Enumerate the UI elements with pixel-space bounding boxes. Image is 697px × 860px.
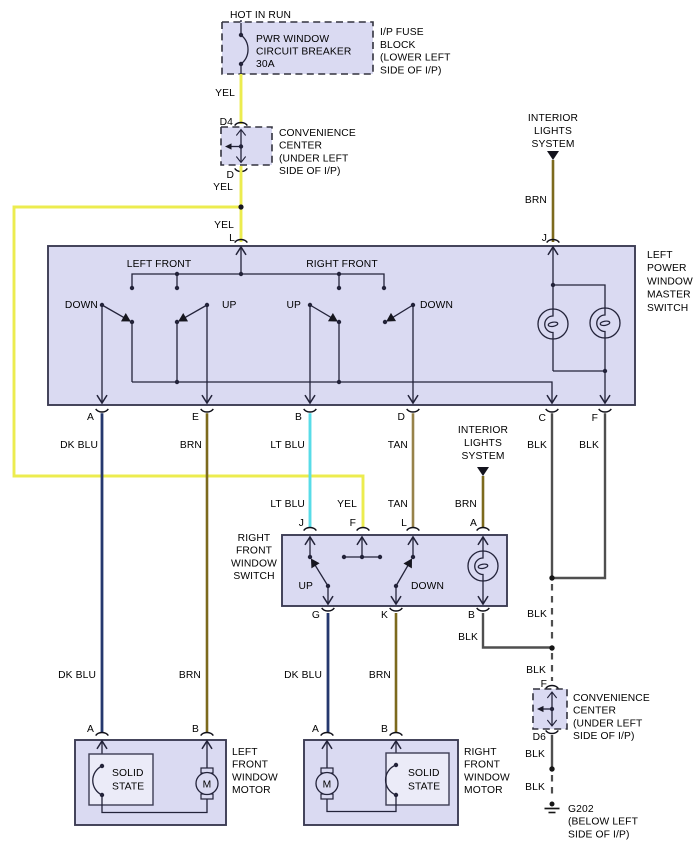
label: LEFT POWER WINDOW MASTER SWITCH	[647, 250, 693, 314]
connector F (smile)	[592, 409, 612, 424]
terminal F center contacts	[342, 538, 382, 560]
svg-text:SIDE OF I/P): SIDE OF I/P)	[573, 731, 635, 742]
wire BRN switch K to right front window motor B	[369, 613, 396, 733]
svg-text:BRN: BRN	[369, 670, 391, 681]
svg-text:F: F	[350, 518, 356, 529]
svg-text:BRN: BRN	[180, 440, 202, 451]
wire BLK terminal C to splice	[527, 413, 552, 578]
connector A (smile)	[87, 409, 108, 423]
svg-text:LEFT: LEFT	[647, 250, 673, 261]
svg-text:SOLID: SOLID	[112, 768, 144, 779]
svg-text:RIGHT: RIGHT	[464, 747, 497, 758]
left power window master switch (box)	[48, 246, 635, 405]
svg-text:LT BLU: LT BLU	[270, 499, 305, 510]
svg-text:J: J	[542, 233, 547, 244]
svg-text:MOTOR: MOTOR	[464, 785, 503, 796]
svg-text:(LOWER LEFT: (LOWER LEFT	[380, 53, 451, 64]
terminal A stem (LF down pivot)	[101, 305, 103, 403]
wire TAN terminal D to right front window switch L	[388, 413, 413, 527]
splice junction (ground lead)	[549, 766, 554, 771]
wire: LF down contact to ground bus	[131, 322, 133, 382]
svg-text:FRONT: FRONT	[236, 546, 273, 557]
svg-text:SWITCH: SWITCH	[233, 571, 274, 582]
switch: right front UP	[286, 300, 341, 324]
wire BLK switch B to splice	[458, 613, 551, 648]
svg-text:A: A	[312, 724, 319, 735]
wire: LF up contact to ground bus	[176, 322, 178, 382]
I/P fuse block (dashed box)	[222, 22, 373, 74]
svg-text:BLOCK: BLOCK	[380, 40, 416, 51]
svg-text:STATE: STATE	[408, 782, 440, 793]
lamp 1 (master switch illumination)	[538, 285, 568, 371]
connector D (smile arc)	[226, 168, 247, 181]
svg-text:B: B	[468, 610, 475, 621]
svg-text:DK BLU: DK BLU	[60, 440, 98, 451]
lamp 2 (master switch illumination)	[590, 308, 620, 371]
svg-text:LIGHTS: LIGHTS	[534, 126, 572, 137]
svg-text:YEL: YEL	[214, 220, 234, 231]
motor M (left front)	[196, 742, 218, 800]
svg-text:M: M	[323, 780, 332, 791]
svg-text:LEFT: LEFT	[232, 747, 258, 758]
svg-text:BLK: BLK	[527, 440, 547, 451]
ground G202	[545, 802, 639, 841]
connector C (smile)	[538, 409, 558, 424]
node: INTERIOR LIGHTS SYSTEM (top right)	[528, 113, 578, 160]
label: LEFT FRONT WINDOW MOTOR	[232, 747, 278, 796]
connector A of right front window switch (frown)	[470, 518, 489, 531]
switch: left front DOWN	[65, 300, 134, 324]
splice junction (B BLK)	[549, 645, 554, 650]
connector B (smile)	[295, 409, 316, 423]
svg-text:B: B	[192, 724, 199, 735]
label: CONVENIENCE CENTER location (upper)	[279, 128, 356, 177]
wire YEL from circuit breaker to connector D4	[215, 74, 241, 124]
splice junction (C/F BLK)	[549, 575, 554, 580]
svg-text:UP: UP	[286, 300, 301, 311]
terminal K stem	[395, 586, 397, 604]
connector F of right front window switch (frown)	[350, 518, 370, 531]
svg-text:YEL: YEL	[337, 499, 357, 510]
connector L of right front window switch (frown)	[401, 518, 419, 531]
connector A of right front window motor (frown)	[312, 724, 333, 736]
svg-text:CIRCUIT BREAKER: CIRCUIT BREAKER	[256, 46, 351, 57]
terminal J entry arrow and lamp feed	[551, 248, 605, 309]
svg-text:PWR WINDOW: PWR WINDOW	[256, 34, 329, 45]
svg-text:(UNDER LEFT: (UNDER LEFT	[573, 718, 643, 729]
connector D6 (smile)	[533, 730, 559, 743]
wire YEL branch to right front window switch terminal F	[14, 207, 363, 527]
wire: lamps common to terminal F	[553, 369, 607, 403]
svg-text:30A: 30A	[256, 59, 275, 70]
wire: solid state to motor (right)	[327, 795, 396, 812]
svg-text:SWITCH: SWITCH	[647, 303, 688, 314]
thermal breaker inside solid state (left motor)	[93, 764, 104, 797]
svg-text:INTERIOR: INTERIOR	[528, 113, 578, 124]
svg-text:DOWN: DOWN	[411, 581, 444, 592]
wire BLK terminal F to splice	[554, 413, 605, 578]
solid state module (left motor)	[89, 754, 153, 805]
svg-text:WINDOW: WINDOW	[647, 276, 693, 287]
svg-text:(UNDER LEFT: (UNDER LEFT	[279, 153, 349, 164]
left front window motor (box)	[75, 740, 226, 825]
svg-text:TAN: TAN	[388, 440, 408, 451]
wire DK BLU switch G to right front window motor A	[284, 613, 328, 733]
connector L (frown arc)	[229, 233, 247, 244]
terminal E stem (LF up pivot)	[206, 305, 208, 403]
right front window motor (box)	[304, 740, 458, 825]
wire YEL from connector D to master switch terminal L	[213, 166, 241, 242]
svg-text:BRN: BRN	[525, 195, 547, 206]
lamp (right front switch illumination)	[468, 538, 498, 604]
svg-text:POWER: POWER	[647, 263, 687, 274]
svg-text:CENTER: CENTER	[279, 141, 322, 152]
connector B of left front window motor (frown)	[192, 724, 213, 736]
svg-text:BRN: BRN	[179, 670, 201, 681]
svg-text:BLK: BLK	[526, 665, 546, 676]
svg-text:CONVENIENCE: CONVENIENCE	[573, 693, 650, 704]
svg-text:BLK: BLK	[527, 609, 547, 620]
svg-text:CONVENIENCE: CONVENIENCE	[279, 128, 356, 139]
thermal breaker inside solid state (right motor)	[386, 763, 399, 797]
switch: RF switch UP	[298, 560, 330, 592]
connector K (smile)	[381, 608, 402, 621]
svg-text:CENTER: CENTER	[573, 706, 616, 717]
wire BLK splice to splice (dashed common)	[527, 584, 552, 644]
wire: RF up contact to ground bus	[338, 322, 340, 382]
svg-text:RIGHT: RIGHT	[238, 533, 271, 544]
label: CONVENIENCE CENTER location (lower)	[573, 693, 650, 742]
svg-text:LIGHTS: LIGHTS	[464, 438, 502, 449]
wire LT BLU terminal B to right front window switch J	[270, 413, 310, 527]
connector D4 (frown arc)	[220, 117, 248, 128]
svg-text:DK BLU: DK BLU	[284, 670, 322, 681]
svg-text:L: L	[229, 233, 235, 244]
motor M (right front)	[316, 742, 338, 800]
node label RIGHT FRONT	[306, 259, 378, 270]
wire BLK connector D6 to splice	[525, 735, 552, 769]
svg-text:FRONT: FRONT	[464, 760, 501, 771]
connector J (frown arc)	[542, 233, 559, 244]
svg-text:D6: D6	[533, 732, 547, 743]
convenience center internal splice arrows (lower)	[537, 693, 554, 726]
svg-text:SIDE OF I/P): SIDE OF I/P)	[568, 829, 630, 840]
convenience center (lower, dashed box)	[533, 689, 567, 729]
wire: solid state to motor (left)	[102, 795, 207, 813]
terminal B entry (right motor)	[395, 742, 397, 766]
svg-text:BLK: BLK	[525, 749, 545, 760]
connector E (smile)	[192, 409, 213, 423]
svg-text:MOTOR: MOTOR	[232, 785, 271, 796]
wire DK BLU terminal A to left front window motor	[58, 413, 102, 732]
label: RIGHT FRONT WINDOW MOTOR	[464, 747, 510, 796]
wire BRN interior lights to right front switch A	[455, 476, 483, 527]
svg-text:WINDOW: WINDOW	[464, 772, 510, 783]
svg-text:G: G	[312, 610, 320, 621]
connector G (smile)	[312, 608, 334, 621]
svg-text:B: B	[295, 412, 302, 423]
svg-text:M: M	[203, 780, 212, 791]
wire: supply bus inside master switch	[130, 272, 386, 290]
switch: left front UP	[175, 300, 237, 324]
convenience center (upper, dashed box)	[221, 127, 272, 165]
svg-text:BLK: BLK	[458, 632, 478, 643]
svg-text:F: F	[592, 413, 598, 424]
svg-text:D: D	[226, 170, 234, 181]
svg-text:J: J	[299, 518, 304, 529]
wire BRN from interior lights system to master switch terminal J	[525, 160, 553, 242]
wire BLK splice to ground G202 (dashed common)	[525, 775, 552, 798]
svg-text:YEL: YEL	[215, 88, 235, 99]
svg-text:STATE: STATE	[112, 782, 144, 793]
terminal J entry	[308, 538, 312, 560]
svg-text:SOLID: SOLID	[408, 768, 440, 779]
switch: right front DOWN	[383, 300, 453, 324]
svg-text:HOT IN RUN: HOT IN RUN	[230, 10, 291, 21]
svg-text:A: A	[470, 518, 477, 529]
svg-text:TAN: TAN	[388, 499, 408, 510]
svg-text:LT BLU: LT BLU	[270, 440, 305, 451]
svg-text:WINDOW: WINDOW	[231, 558, 277, 569]
terminal L entry arrow	[240, 248, 242, 275]
connector A of left front window motor (frown)	[87, 724, 108, 736]
terminal D stem (RF down pivot)	[412, 305, 414, 403]
wire BLK splice to connector F (dashed common)	[526, 653, 552, 681]
right front window switch (box)	[282, 535, 507, 606]
svg-text:UP: UP	[222, 300, 237, 311]
label: I/P FUSE BLOCK location	[380, 27, 451, 76]
node label LEFT FRONT	[127, 259, 192, 270]
svg-text:DK BLU: DK BLU	[58, 670, 96, 681]
junction on YEL wire	[238, 204, 243, 209]
svg-text:LEFT FRONT: LEFT FRONT	[127, 259, 192, 270]
svg-text:SYSTEM: SYSTEM	[531, 139, 574, 150]
terminal L entry	[411, 538, 415, 560]
node HOT IN RUN (power feed label)	[230, 10, 291, 23]
terminal B stem (RF up pivot)	[309, 305, 311, 403]
svg-text:G202: G202	[568, 804, 594, 815]
connector D (smile)	[397, 409, 419, 423]
svg-text:E: E	[192, 412, 199, 423]
connector B of right front window motor (frown)	[381, 724, 402, 736]
svg-text:MASTER: MASTER	[647, 290, 691, 301]
svg-text:DOWN: DOWN	[65, 300, 98, 311]
label: RIGHT FRONT WINDOW SWITCH	[231, 533, 277, 582]
svg-text:A: A	[87, 724, 94, 735]
terminal G stem	[327, 586, 329, 604]
svg-text:SIDE OF I/P): SIDE OF I/P)	[380, 65, 442, 76]
svg-text:INTERIOR: INTERIOR	[458, 425, 508, 436]
svg-text:B: B	[381, 724, 388, 735]
convenience center internal splice arrows	[225, 130, 243, 162]
svg-text:FRONT: FRONT	[232, 760, 269, 771]
svg-text:SYSTEM: SYSTEM	[461, 451, 504, 462]
svg-text:D: D	[397, 412, 405, 423]
svg-text:SIDE OF I/P): SIDE OF I/P)	[279, 166, 341, 177]
svg-text:WINDOW: WINDOW	[232, 772, 278, 783]
svg-text:YEL: YEL	[213, 182, 233, 193]
connector J of right front window switch (frown)	[299, 518, 316, 531]
svg-text:C: C	[538, 413, 546, 424]
svg-text:DOWN: DOWN	[420, 300, 453, 311]
svg-text:I/P FUSE: I/P FUSE	[380, 27, 424, 38]
svg-text:BRN: BRN	[455, 499, 477, 510]
circuit breaker: PWR WINDOW CIRCUIT BREAKER 30A	[239, 23, 352, 74]
svg-text:L: L	[401, 518, 407, 529]
svg-text:A: A	[87, 412, 94, 423]
solid state module (right motor)	[386, 753, 449, 805]
svg-text:UP: UP	[298, 581, 313, 592]
svg-text:(BELOW LEFT: (BELOW LEFT	[568, 817, 639, 828]
svg-text:BLK: BLK	[525, 782, 545, 793]
wire BRN terminal E to left front window motor	[179, 413, 207, 732]
svg-text:K: K	[381, 610, 388, 621]
connector B (smile)	[468, 608, 489, 621]
terminal A entry (left motor)	[101, 742, 103, 767]
wire: internal ground bus to terminal C	[132, 380, 552, 403]
svg-text:RIGHT FRONT: RIGHT FRONT	[306, 259, 378, 270]
connector F of convenience center (frown)	[541, 679, 559, 690]
switch: RF switch DOWN	[394, 560, 444, 592]
svg-text:BLK: BLK	[579, 440, 599, 451]
node: INTERIOR LIGHTS SYSTEM (above right front switch)	[458, 425, 508, 476]
